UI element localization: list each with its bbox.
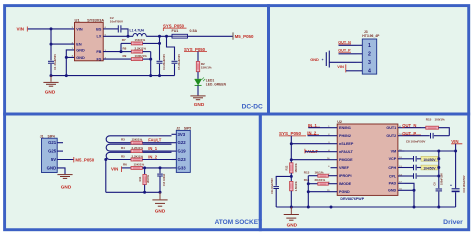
svg-text:R9: R9 [123,54,127,58]
wire R2 to LED [197,72,199,79]
svg-text:2.2K/1%: 2.2K/1% [132,154,144,158]
svg-text:U1: U1 [75,18,81,23]
wire hairpin G22 to R4 [110,143,172,145]
svg-text:2.2K/1%: 2.2K/1% [135,46,147,50]
U2 left pin stubs [331,127,338,129]
svg-text:M5_P050: M5_P050 [75,157,94,162]
junction divider node [290,175,293,178]
svg-text:PAD: PAD [389,182,397,186]
wire CPL row [405,175,414,177]
inductor L1 [133,34,146,37]
connector J2 SIP5 [176,130,190,172]
resistor R11 [144,168,146,175]
junction gnd drop [104,158,107,161]
junction rail R8R9 [149,74,152,77]
junction GND pins [65,56,68,59]
svg-text:5V: 5V [51,157,56,162]
capacitor C6 [413,156,415,162]
svg-text:G22: G22 [178,140,187,145]
wire PAD drop [405,183,415,207]
junction bus CPH [437,166,440,169]
svg-text:3V3: 3V3 [178,132,186,137]
svg-text:R7: R7 [122,38,126,42]
ground symbol P1 [50,76,52,82]
resistor R4 [110,150,131,152]
wire PGND to vertical B [308,191,330,193]
capacitor C8 [430,133,432,139]
svg-text:2: 2 [368,52,371,58]
svg-text:GND: GND [194,102,205,107]
svg-text:Driver: Driver [443,219,463,226]
svg-text:GND: GND [388,189,397,193]
junction output node A [158,35,161,38]
wire gnd drop P3 [105,160,107,193]
ground symbol P4 [290,207,292,214]
svg-text:EN/IN1: EN/IN1 [339,126,351,130]
junction VM VIN [454,150,457,153]
svg-text:2K2/1%: 2K2/1% [315,178,326,182]
svg-text:VIN: VIN [111,167,118,172]
svg-text:GND: GND [76,48,85,52]
panel frame DC-DC [5,6,269,114]
wire EN [51,29,75,44]
value box C7 [421,165,438,170]
svg-text:15K/1%: 15K/1% [294,163,298,173]
wire OUT_N pin1 [339,44,357,46]
wire VIN pin4 [346,70,357,72]
svg-text:R8: R8 [123,46,127,50]
svg-text:IN_2: IN_2 [148,155,158,160]
junction B R14 [307,182,310,185]
svg-text:IPROPI: IPROPI [339,174,352,178]
svg-text:GND: GND [76,56,85,60]
svg-text:G19: G19 [178,149,187,154]
svg-text:G23: G23 [178,157,187,162]
svg-text:0.5A: 0.5A [190,29,198,33]
resistor R9 [103,58,131,60]
wire FB node [103,51,121,53]
wire C8 to snubber [434,135,449,137]
svg-text:GND: GND [45,90,56,95]
svg-text:FB: FB [96,50,101,54]
connector J3 HT3.96_4P [362,39,376,74]
wire node to C11 [276,176,291,185]
junction PGND [307,190,310,193]
wire VCP row [405,158,414,160]
U2 right pin stubs [398,127,405,129]
junction PMODE [290,158,293,161]
value box C6 [421,156,438,161]
svg-text:C5 22uF/10V: C5 22uF/10V [177,54,181,70]
svg-text:100nF/16V: 100nF/16V [440,173,443,185]
wire VIN to U1 [28,28,75,30]
svg-text:2.2K/1%: 2.2K/1% [132,146,144,150]
port M5_P050 right [232,32,234,39]
svg-text:PH/IN2: PH/IN2 [339,134,351,138]
junction rail gndsym [290,206,293,209]
capacitor C10 electrolytic [455,151,457,188]
capacitor C11 [273,186,279,188]
svg-text:C4 22uF/10V: C4 22uF/10V [162,54,166,70]
svg-text:LX: LX [97,35,102,39]
bottom rail P3 [106,191,160,193]
svg-text:15K/1%: 15K/1% [201,66,212,70]
panel frame Driver [260,114,468,230]
capacitor C1 [50,44,52,60]
wire vertical B R13R14 [307,176,309,207]
svg-text:L1 4.7UH: L1 4.7UH [130,28,145,32]
junction rail U1GND [65,74,68,77]
capacitor C4 [159,43,161,60]
resistor R5 [110,159,131,161]
wire 5V to label [57,159,73,161]
svg-text:R4: R4 [121,146,125,150]
svg-text:+: + [322,58,324,62]
capacitor C7 [413,165,415,171]
svg-text:ATOM SOCKET: ATOM SOCKET [215,219,262,226]
wire R16 to rail [290,191,292,207]
svg-text:PGND: PGND [339,190,350,194]
wire J1 GND [57,168,65,174]
svg-text:10nF/50V: 10nF/50V [110,19,123,23]
svg-text:R12: R12 [285,165,289,170]
svg-text:GND: GND [310,57,319,62]
svg-text:J1: J1 [40,134,44,138]
capacitor C5 cpl [413,173,415,179]
svg-text:G21: G21 [48,140,57,145]
junction rail C9 [437,206,440,209]
ground symbol P3 [159,192,161,199]
connector J1 SIP4 [42,138,58,172]
svg-text:SY8303A: SY8303A [87,18,104,23]
resistor R14 [308,183,318,185]
wire L1 to fuse [146,35,172,37]
junction C2-LX [127,35,130,38]
svg-text:J2: J2 [176,127,180,131]
svg-text:VIN: VIN [337,64,344,69]
junction C13 tap [159,166,162,169]
junction GND drop [413,189,416,192]
svg-text:VIN: VIN [17,27,25,32]
wire sysp vertical A [290,136,292,163]
svg-text:2K/1%: 2K/1% [146,174,150,182]
svg-text:SYS_P050: SYS_P050 [163,23,185,28]
resistor R15 [426,126,439,129]
svg-text:SYS_P050: SYS_P050 [279,131,302,136]
J2 pin stubs [172,133,177,135]
svg-text:CPH: CPH [388,166,396,170]
wire GND pins to rail [65,57,67,75]
wire CPL to bus [417,175,439,177]
wire IN_1 [308,127,330,129]
svg-text:PMODE: PMODE [339,158,353,162]
wire R15 to snubber [439,128,450,136]
junction output node B [165,35,168,38]
resistor R2 [196,62,199,72]
svg-text:CPL: CPL [389,174,397,178]
wire OUT2 to C8 [405,135,430,137]
junction bus CPL [437,175,440,178]
svg-text:VREF: VREF [339,166,350,170]
resistor R6 [122,167,131,169]
svg-text:VIN: VIN [451,139,458,144]
wire bus VM [438,151,440,188]
svg-text:DC-DC: DC-DC [242,104,263,111]
op-amp U1 regulator SY8303A [75,22,104,61]
svg-text:U2: U2 [337,120,342,124]
wire U1 GND pins [66,50,74,58]
wire OUT1 to R15 [405,127,426,129]
svg-text:DRV8876PWP: DRV8876PWP [340,197,364,201]
capacitor C9 [436,188,443,190]
svg-text:GND: GND [287,222,298,227]
svg-text:+: + [450,184,452,188]
transistor-driver U2 DRV8876 [337,124,398,195]
svg-text:100/1%: 100/1% [435,118,446,122]
wire OUT_P pin2 [339,53,357,55]
junction VM bus [437,150,440,153]
wire VM row [405,150,456,152]
wire IN_2 [308,135,331,137]
resistor R13 [308,175,318,177]
svg-text:G25: G25 [48,149,57,154]
wire nFAULT [305,151,331,153]
capacitor C13 [159,168,161,173]
wire C2 to LX node [122,29,129,36]
svg-text:15K/1%: 15K/1% [132,138,143,142]
svg-text:1.5K/1%: 1.5K/1% [294,181,298,192]
ground symbol J1 [57,174,72,176]
port M5_P050 atom [73,157,75,162]
wire BS to C2 [103,28,118,30]
svg-text:GND: GND [155,209,166,214]
wire LED to gnd [197,85,199,95]
svg-text:SIP5: SIP5 [184,127,191,131]
svg-text:M5_P050: M5_P050 [235,34,254,39]
svg-text:HT3.96_4P: HT3.96_4P [362,34,380,38]
svg-text:VM: VM [391,149,397,153]
svg-text:1: 1 [368,43,371,49]
svg-text:VCP: VCP [389,157,397,161]
svg-text:R3: R3 [121,138,125,142]
junction VIN node [50,27,53,30]
panel frame connector [269,6,469,114]
svg-text:GND: GND [61,184,72,189]
svg-text:15K/1%: 15K/1% [134,163,145,167]
svg-text:G33: G33 [178,165,187,170]
svg-text:R13: R13 [304,170,310,174]
junction rail right [413,206,416,209]
svg-text:GND: GND [47,165,57,170]
svg-text:FS: FS [97,58,102,62]
svg-text:R5: R5 [121,154,125,158]
capacitor C2 [117,25,119,32]
svg-text:FAULT: FAULT [148,138,162,143]
junction rail C13 [159,191,162,194]
junction rail C1 [50,74,53,77]
resistor R3 [110,142,131,144]
svg-text:R6: R6 [123,163,127,167]
svg-text:100K/1%: 100K/1% [135,54,148,58]
wire gnd pin3 [329,61,356,63]
fuse FU1 [172,34,188,38]
svg-text:C1 47uF/50V: C1 47uF/50V [53,54,57,70]
svg-text:VIN: VIN [76,27,83,31]
svg-text:EN: EN [76,43,82,47]
svg-text:C11 10uF/50V: C11 10uF/50V [271,178,274,194]
junction rail B [307,206,310,209]
LED1 LED_GREEN [195,79,202,85]
wire PMODE [291,159,330,161]
svg-text:4: 4 [368,69,371,75]
svg-text:nFAULT: nFAULT [339,150,354,154]
svg-text:15K/1%: 15K/1% [135,38,146,42]
resistor R12 [290,163,293,173]
svg-text:C13 100nF: C13 100nF [163,173,166,186]
ground rail P1 [51,75,175,77]
ground rail P4 [276,206,455,208]
wire output to R7 [159,36,161,43]
svg-text:FU1: FU1 [172,29,179,33]
junction FB [120,50,123,53]
wire R8 R9 to rail [150,52,152,76]
junction rail C4 [158,74,161,77]
J1 pin stubs [57,142,63,144]
svg-text:LED_GREEN: LED_GREEN [206,83,227,87]
panel frame ATOM SOCKET [5,114,261,230]
svg-text:OUT2: OUT2 [386,134,396,138]
junction rail R11 [143,191,146,194]
wire hairpin G19 to R5 [110,151,172,153]
svg-text:nSLEEP: nSLEEP [339,142,354,146]
junction rail PGND [330,206,333,209]
capacitor C5 [167,36,175,60]
svg-text:1K/1%: 1K/1% [315,170,324,174]
wire CPH row [405,167,414,169]
junction bus VCP [437,157,440,160]
resistor R8 [131,50,142,53]
wire LX [103,35,133,37]
svg-text:SIP4: SIP4 [48,134,55,138]
junction R7 right [158,42,161,45]
svg-text:OUT1: OUT1 [386,126,396,130]
wire R12 to node [290,173,292,181]
svg-text:IN_1: IN_1 [148,146,158,151]
wire GND right drop [405,189,415,191]
wire hairpin 3V3 to R3 [110,135,172,137]
svg-text:104/50V: 104/50V [423,158,436,162]
svg-text:R15: R15 [426,118,432,122]
junction R11 tap [143,166,146,169]
svg-text:C8 100nF/50V: C8 100nF/50V [406,139,426,143]
junction EN node [50,43,53,46]
svg-text:R11: R11 [138,176,142,181]
ground symbol LED [190,95,205,97]
svg-text:C10 100uF/50V: C10 100uF/50V [463,175,466,192]
junction R9 right [149,58,152,61]
resistor R16 [290,181,293,190]
svg-text:104/50V: 104/50V [423,167,436,171]
svg-text:3: 3 [368,60,371,66]
resistor R7 [121,42,131,44]
wire label to R2 [197,52,199,62]
wire nSLEEP [291,143,330,145]
wire fuse to port [188,35,234,37]
svg-text:IMODE: IMODE [339,182,352,186]
svg-text:BS: BS [96,27,102,31]
junction nSLEEP [290,142,293,145]
